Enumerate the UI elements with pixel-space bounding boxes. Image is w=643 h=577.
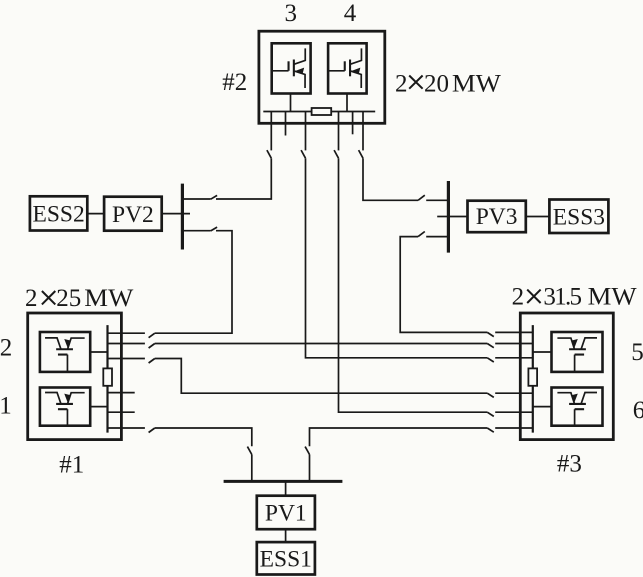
wire left bus upper branch xyxy=(182,198,210,200)
switch at #1 t6 blade xyxy=(149,428,155,433)
switch at #3 t1 blade xyxy=(487,332,494,336)
IGBT U5 xyxy=(557,338,597,372)
wire module5 to bus xyxy=(533,351,552,353)
tick t2 of block #1 xyxy=(108,343,145,345)
wire #1 t6 to bottom bus xyxy=(155,428,252,446)
svg-text:#2: #2 xyxy=(222,69,247,96)
switch at #3 t2 blade xyxy=(487,344,494,348)
IGBT module box 4 xyxy=(328,43,367,93)
wire v3: block #2 to block #3 terminal 5 xyxy=(338,112,340,151)
svg-text:2: 2 xyxy=(0,334,12,361)
wire v2: block #2 to block #3 terminal 3 xyxy=(305,112,307,151)
switch at bottom bus right blade xyxy=(305,447,309,455)
switch at #3 t4 blade xyxy=(487,393,494,397)
IGBT U4 xyxy=(328,48,362,88)
tick t5 of block #3 xyxy=(495,411,533,413)
resistor R3 on block #3 bus xyxy=(528,368,537,385)
wire left bus to block #1 terminal 2 xyxy=(155,231,232,334)
wire PV1 to ESS1 xyxy=(285,529,287,542)
IGBT module box 2 xyxy=(40,332,90,372)
IGBT U6 xyxy=(557,393,597,427)
IGBT module box 3 xyxy=(272,43,311,93)
wire PV3 to ESS3 xyxy=(526,216,550,218)
right ac bus bar xyxy=(447,181,450,253)
converter block #1 outer box xyxy=(28,313,122,440)
svg-text:ESS2: ESS2 xyxy=(32,202,84,228)
IGBT module box 1 xyxy=(40,388,90,426)
svg-text:ESS1: ESS1 xyxy=(260,547,312,573)
wire module3 to dc bus xyxy=(290,94,292,112)
bottom ac bus bar xyxy=(224,480,343,483)
svg-text:3: 3 xyxy=(285,0,298,27)
ESS3 box xyxy=(549,200,608,234)
tick t1 of block #3 xyxy=(495,331,533,333)
switch at right bus lower blade xyxy=(418,232,425,237)
svg-text:1: 1 xyxy=(0,392,12,419)
wire to bottom bus left xyxy=(251,455,253,482)
PV2 box xyxy=(104,197,162,231)
wire right bus to block #3 terminal 1 xyxy=(400,237,487,333)
stub terminal b of block #2 xyxy=(352,112,354,135)
switch at #3 t3 blade xyxy=(487,358,494,362)
ESS1 box xyxy=(257,542,315,574)
switch at right bus upper blade xyxy=(418,195,425,200)
tick t6 of block #3 xyxy=(495,427,533,429)
svg-text:ESS3: ESS3 xyxy=(553,204,605,230)
tick t1 of block #1 xyxy=(108,332,145,334)
svg-text:PV2: PV2 xyxy=(112,202,154,228)
wire #3 t6 to bottom bus xyxy=(310,428,488,446)
switch S24 blade xyxy=(359,150,363,158)
dc bus of block #1 xyxy=(106,325,108,433)
tick t4 of block #3 xyxy=(495,392,533,394)
stub t4 of block #1 xyxy=(108,392,135,394)
svg-text:PV1: PV1 xyxy=(265,500,307,526)
ESS2 box xyxy=(30,196,87,230)
resistor R1 on block #1 bus xyxy=(103,368,112,385)
wire module6 to bus xyxy=(533,406,552,408)
switch at left bus lower blade xyxy=(211,227,217,231)
wire ESS2 to PV2 xyxy=(87,213,104,215)
jog wire: block #1 t3 to block #3 t4 xyxy=(155,359,488,394)
wire left bus lower branch xyxy=(182,230,210,232)
wire v4: block #2 to right bus xyxy=(362,112,364,151)
switch S23 blade xyxy=(334,150,338,158)
switch S22 blade xyxy=(301,150,305,158)
switch at #1 t2 blade xyxy=(149,344,155,349)
tick t6 of block #1 xyxy=(108,427,145,429)
dc bus of block #3 xyxy=(532,325,534,433)
converter block #2 outer box xyxy=(259,31,385,123)
wire right bus to PV3 xyxy=(448,216,467,218)
long wire t2: block #1 to block #3 xyxy=(155,343,488,345)
switch at #3 t5 blade xyxy=(487,412,494,416)
IGBT U2 xyxy=(45,338,85,372)
switch at #3 t6 blade xyxy=(487,428,494,432)
wire v3 lower xyxy=(339,158,488,412)
switch at #1 t1 blade xyxy=(149,333,155,338)
wire right bus lower branch xyxy=(426,236,448,238)
wire v4 lower xyxy=(363,158,418,200)
op IGBT U3 xyxy=(272,48,306,88)
svg-text:5: 5 xyxy=(631,339,643,366)
converter block #3 outer box xyxy=(520,313,613,440)
switch at #1 t3 blade xyxy=(149,359,155,364)
switch at bottom bus left blade xyxy=(247,447,251,455)
wire v2 lower xyxy=(306,158,488,358)
PV1 box xyxy=(257,496,315,530)
wire module2 to bus xyxy=(90,351,107,353)
dc bus of block #2 xyxy=(263,111,375,113)
switch at left bus upper blade xyxy=(211,195,217,199)
svg-text:4: 4 xyxy=(344,0,357,27)
wire PV2 to left bus xyxy=(162,213,190,215)
wire bottom bus to PV1 xyxy=(285,481,287,495)
tick t3 of block #3 xyxy=(495,357,533,359)
svg-text:#1: #1 xyxy=(59,451,84,478)
IGBT module box 6 xyxy=(552,388,603,426)
wire v1 lower xyxy=(216,158,271,199)
tick t2 of block #3 xyxy=(495,343,533,345)
IGBT module box 5 xyxy=(552,332,603,372)
PV3 box xyxy=(468,201,526,233)
resistor R2 on dc bus xyxy=(312,108,332,115)
wire right bus upper branch xyxy=(426,199,448,201)
left ac bus bar xyxy=(181,184,184,250)
svg-text:6: 6 xyxy=(633,397,643,424)
svg-text:#3: #3 xyxy=(557,450,582,477)
stub terminal a of block #2 xyxy=(285,112,287,136)
switch S21 blade xyxy=(267,150,271,158)
wire right bus stub xyxy=(437,216,448,218)
tick t3 of block #1 xyxy=(108,358,145,360)
wire module4 to dc bus xyxy=(346,94,348,112)
wire v1: block #2 to left bus xyxy=(270,112,272,151)
svg-text:PV3: PV3 xyxy=(476,204,518,230)
IGBT U1 xyxy=(45,393,85,427)
wire to bottom bus right xyxy=(309,455,311,482)
stub t5 of block #1 xyxy=(108,411,135,413)
wire module1 to bus xyxy=(90,406,107,408)
